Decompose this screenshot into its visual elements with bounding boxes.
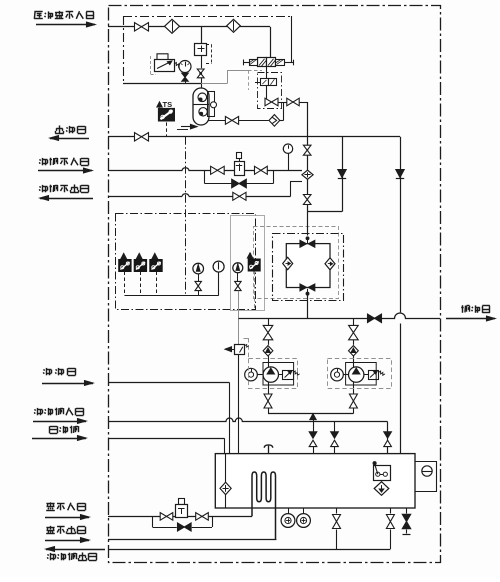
svg-text:TS: TS xyxy=(163,100,173,109)
